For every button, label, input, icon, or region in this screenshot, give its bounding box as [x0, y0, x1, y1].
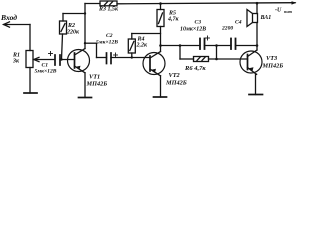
svg-text:МП42Б: МП42Б [86, 81, 108, 88]
svg-text:2200: 2200 [221, 26, 233, 32]
transistor VT2 [143, 52, 187, 87]
svg-text:Вход: Вход [0, 13, 17, 22]
potentiometer R1 [12, 51, 54, 68]
ground (R1) [24, 92, 37, 94]
wire VT3 emitter to ground [256, 74, 257, 94]
ground (VT1 emitter) [79, 97, 92, 99]
svg-text:МП42Б: МП42Б [165, 80, 187, 87]
svg-text:220к: 220к [66, 30, 80, 36]
node R4 bottom [131, 56, 133, 58]
node R6 tap left [179, 44, 182, 47]
node VT2 collector [159, 44, 162, 47]
svg-text:VT1: VT1 [89, 74, 100, 81]
svg-text:-U: -U [275, 8, 282, 14]
node speaker top on rail [256, 2, 259, 5]
wire VT1 emitter to ground [84, 73, 86, 98]
resistor R4 [128, 34, 160, 58]
wire VT3 collector up [256, 46, 258, 51]
svg-text:ВА1: ВА1 [260, 15, 272, 21]
input arrow [4, 22, 31, 27]
node C2 tap [84, 42, 86, 44]
wire C2 to VT2 base [111, 57, 150, 59]
wire VT2 collector to C3 [161, 45, 201, 47]
transistor VT1 [68, 49, 108, 88]
ground (VT2 emitter) [154, 96, 167, 98]
svg-text:2,2к: 2,2к [136, 43, 149, 49]
svg-text:VT3: VT3 [266, 55, 277, 62]
svg-text:пит: пит [284, 9, 293, 14]
capacitor C1 [35, 52, 61, 75]
power rail [117, 1, 297, 4]
svg-text:R6 4,7к: R6 4,7к [184, 65, 206, 72]
capacitor C4 [221, 20, 242, 50]
svg-text:С4: С4 [235, 20, 242, 26]
wire R1 to ground [29, 68, 31, 94]
wire VT1 collector up to R3 [84, 4, 86, 49]
svg-text:5мк×12В: 5мк×12В [96, 40, 118, 46]
resistor R6 [180, 46, 248, 73]
wire input to R1 [29, 25, 31, 51]
capacitor C2 [85, 33, 118, 64]
node speaker/C4/VT3 collector [256, 44, 259, 47]
svg-text:R2: R2 [67, 23, 75, 29]
svg-text:МП42Б: МП42Б [262, 63, 284, 70]
svg-text:С2: С2 [106, 33, 113, 39]
node C3/C4/R6 [215, 44, 218, 47]
wire C1 to VT1 base [60, 59, 75, 61]
input label Вход [0, 13, 17, 22]
node R2 tap [84, 12, 86, 14]
wire node down to R6 right [216, 46, 218, 60]
transistor VT3 [240, 50, 283, 74]
wire C4 to VT3 collector node [236, 45, 258, 47]
resistor R3 [85, 1, 119, 13]
wire VT2 collector up [160, 46, 162, 52]
ground (VT3 emitter) [249, 94, 263, 96]
svg-text:R3 1,5к: R3 1,5к [98, 7, 119, 13]
svg-text:3к: 3к [12, 59, 20, 65]
svg-text:5мк×12В: 5мк×12В [35, 69, 57, 75]
resistor R2 [60, 14, 86, 60]
svg-text:10мк×12В: 10мк×12В [180, 27, 206, 33]
svg-text:4,7к: 4,7к [167, 17, 180, 23]
node R2/C1/VT1 base [60, 58, 62, 60]
node R5 top on rail [159, 2, 162, 5]
wire VT2 emitter to ground [160, 76, 162, 97]
resistor R5 [157, 4, 180, 46]
loudspeaker BA1 [247, 3, 271, 45]
svg-text:VT2: VT2 [169, 72, 180, 79]
capacitor C3 [180, 20, 210, 50]
supply label -Uпит [275, 8, 293, 15]
node R6/VT3 base [215, 58, 218, 61]
wire C3 to C4 [205, 45, 232, 47]
svg-text:С3: С3 [195, 20, 202, 26]
